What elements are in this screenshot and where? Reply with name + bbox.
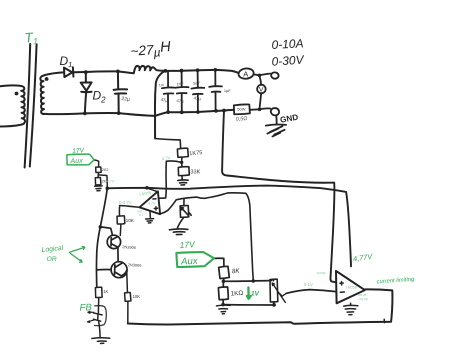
svg-text:4.7V: 4.7V	[148, 201, 156, 205]
svg-text:1V: 1V	[251, 291, 260, 298]
svg-text:4.7V: 4.7V	[107, 179, 115, 183]
svg-text:47µ: 47µ	[160, 97, 169, 103]
svg-text:1KΩ: 1KΩ	[230, 290, 243, 298]
svg-text:0-1V: 0-1V	[304, 282, 313, 287]
svg-text:2N3906: 2N3906	[128, 262, 142, 268]
svg-text:17V: 17V	[179, 239, 196, 250]
svg-text:0,5Ω: 0,5Ω	[236, 116, 248, 123]
svg-text:D1: D1	[60, 54, 73, 69]
svg-text:~27µH: ~27µH	[130, 39, 172, 61]
svg-text:current limiting: current limiting	[376, 277, 415, 286]
svg-text:Logical: Logical	[41, 245, 64, 254]
svg-text:8K: 8K	[232, 268, 241, 276]
svg-text:0-10A: 0-10A	[271, 36, 304, 52]
svg-text:0-4.7V: 0-4.7V	[119, 200, 132, 205]
svg-text:33K: 33K	[190, 169, 200, 175]
svg-text:A: A	[243, 69, 248, 78]
svg-text:3mF: 3mF	[193, 81, 202, 86]
svg-text:10K: 10K	[133, 294, 141, 299]
svg-text:LM358: LM358	[139, 191, 151, 197]
svg-text:Aux: Aux	[69, 158, 83, 166]
svg-text:1µF: 1µF	[224, 88, 231, 93]
svg-text:1K75: 1K75	[189, 150, 203, 157]
svg-text:comp: comp	[317, 271, 326, 275]
svg-text:4.7V: 4.7V	[162, 155, 171, 161]
svg-text:Aux: Aux	[180, 256, 199, 268]
svg-text:1mF: 1mF	[176, 81, 185, 86]
svg-text:D2: D2	[93, 89, 107, 105]
svg-text:0-30V: 0-30V	[271, 53, 305, 69]
svg-text:47µ: 47µ	[176, 98, 184, 104]
svg-text:OR: OR	[47, 256, 57, 263]
svg-text:T1: T1	[24, 29, 39, 47]
svg-text:V: V	[259, 87, 264, 94]
svg-text:LM358: LM358	[346, 285, 357, 289]
svg-text:47µ: 47µ	[193, 95, 201, 101]
svg-text:2K2: 2K2	[102, 168, 109, 172]
svg-text:17V: 17V	[72, 147, 86, 155]
svg-text:by op: by op	[360, 297, 368, 301]
svg-text:2N3906: 2N3906	[122, 244, 136, 250]
svg-text:4.7: 4.7	[139, 213, 144, 217]
svg-text:FB: FB	[79, 302, 92, 313]
svg-text:4,77V: 4,77V	[352, 252, 373, 264]
svg-text:50W: 50W	[237, 107, 245, 112]
svg-text:1m: 1m	[158, 83, 164, 88]
svg-text:10K: 10K	[126, 218, 135, 223]
svg-text:GND: GND	[279, 113, 299, 125]
svg-text:22µ: 22µ	[121, 96, 130, 103]
svg-text:1K: 1K	[103, 289, 108, 294]
